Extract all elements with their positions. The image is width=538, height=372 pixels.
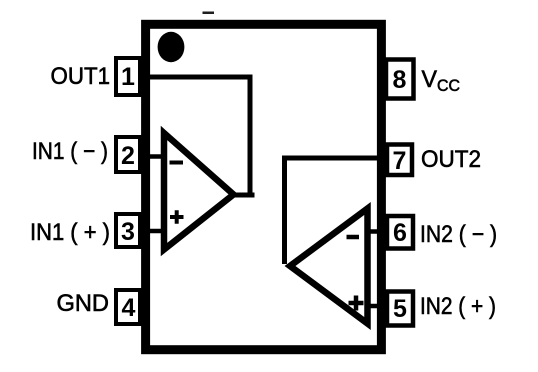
op-amp A triangle xyxy=(164,133,234,250)
svg-text:6: 6 xyxy=(393,219,407,247)
IC body U1 (DIP-8 package outline) xyxy=(146,24,382,349)
svg-text:IN2 ( + ): IN2 ( + ) xyxy=(420,293,496,320)
svg-text:IN2 ( − ): IN2 ( − ) xyxy=(420,221,497,248)
svg-text:2: 2 xyxy=(121,142,135,170)
pin 4 box xyxy=(116,290,140,324)
wire pin 1 to op-amp A output xyxy=(143,77,255,195)
wire pin 2 to op-amp A inverting input xyxy=(143,154,164,159)
svg-text:5: 5 xyxy=(393,295,407,323)
svg-text:OUT2: OUT2 xyxy=(421,146,481,173)
wire op-amp B output to pin 7 xyxy=(285,158,381,264)
pin 5 box xyxy=(387,292,413,326)
svg-text:3: 3 xyxy=(121,218,135,246)
svg-text:GND: GND xyxy=(57,290,110,317)
pin 1 box xyxy=(116,58,140,95)
svg-text:8: 8 xyxy=(393,66,407,94)
pin 2 box xyxy=(116,137,140,172)
pin 8 box xyxy=(386,60,414,99)
wire pin 3 to op-amp A non-inverting input xyxy=(143,229,164,234)
svg-text:IN1 ( − ): IN1 ( − ) xyxy=(32,138,108,165)
op-amp A inverting input minus sign xyxy=(170,161,184,165)
pin 7 box xyxy=(387,145,412,176)
op-amp A non-inverting input plus sign xyxy=(170,210,184,223)
svg-text:V: V xyxy=(422,66,438,93)
op-amp B non-inverting input plus sign xyxy=(349,296,364,311)
pin 6 box xyxy=(387,216,413,249)
wire pin 6 to op-amp B inverting input xyxy=(366,229,386,234)
svg-text:1: 1 xyxy=(121,63,135,91)
svg-text:IN1 ( + ): IN1 ( + ) xyxy=(30,219,110,246)
op-amp B triangle xyxy=(290,209,368,324)
pin 3 box xyxy=(116,214,140,247)
svg-text:OUT1: OUT1 xyxy=(51,63,111,90)
svg-text:CC: CC xyxy=(437,77,460,95)
wire pin 5 to op-amp B non-inverting input xyxy=(366,304,386,309)
pin 1 index dot xyxy=(158,32,185,62)
op-amp B inverting input minus sign xyxy=(347,235,360,240)
svg-text:7: 7 xyxy=(393,147,407,175)
svg-text:4: 4 xyxy=(122,294,136,322)
